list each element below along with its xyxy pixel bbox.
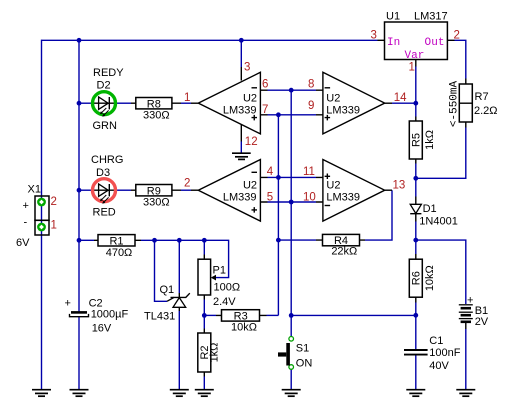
junction node pin4 rail A: [276, 175, 281, 180]
junction node D1/R6/B1: [413, 238, 418, 243]
svg-text:3: 3: [244, 62, 250, 74]
pin number 2 (U2c output): [184, 177, 190, 189]
svg-text:U2: U2: [243, 179, 257, 191]
resistor R6: [409, 254, 422, 303]
svg-text:R7: R7: [475, 91, 489, 103]
junction node on top rail at LED rail: [77, 38, 82, 43]
pin number 1 (LM317 Var): [409, 62, 415, 74]
value label 2.2 ohm (R7): [474, 105, 498, 117]
ground (C2): [70, 390, 89, 397]
svg-text:2: 2: [51, 196, 57, 208]
svg-text:Q1: Q1: [160, 284, 175, 296]
svg-text:+: +: [467, 295, 473, 307]
junction node pin5 rail B: [289, 200, 294, 205]
svg-text:TL431: TL431: [144, 311, 175, 323]
label LM317: [414, 11, 448, 23]
label Q1: [160, 284, 175, 296]
wire: rail to D2 anode: [79, 102, 92, 104]
resistor R1: [94, 235, 141, 248]
value label 100 ohm (P1): [214, 281, 241, 293]
svg-text:16V: 16V: [92, 323, 112, 335]
label D2: [97, 80, 111, 92]
pin number X1 pin2: [51, 196, 57, 208]
wire: R7 bottom to node at D1: [416, 128, 466, 179]
svg-text:100nF: 100nF: [429, 347, 460, 359]
pin number 6: [262, 78, 268, 90]
svg-text:Var: Var: [405, 50, 425, 62]
switch S1 (pushbutton): [278, 337, 294, 370]
svg-text:2.4V: 2.4V: [213, 296, 236, 308]
wire: node to R3 left: [204, 314, 216, 316]
ground (S1): [282, 390, 301, 397]
value label 40V: [429, 360, 449, 372]
svg-text:LM339: LM339: [326, 191, 360, 203]
label C1: [429, 335, 443, 347]
op-amp U2a (LM339, output pin 1, points left): [191, 67, 268, 142]
wire: D3 cathode to R9: [117, 189, 132, 191]
svg-text:D2: D2: [97, 80, 111, 92]
svg-text:10: 10: [303, 191, 316, 203]
wire: node to R5 top: [415, 103, 417, 116]
svg-text:LM339: LM339: [223, 105, 257, 117]
wire: U2a pin3 power drop: [240, 40, 242, 67]
svg-text:470Ω: 470Ω: [106, 247, 133, 259]
junction node on top rail at pin3 drop: [239, 38, 244, 43]
svg-text:6V: 6V: [16, 237, 30, 249]
wire: D1 cathode to node: [415, 222, 417, 241]
svg-text:D1: D1: [423, 203, 437, 215]
op-amp U2c (LM339, output pin 2, points left): [191, 160, 268, 222]
svg-text:R1: R1: [109, 235, 123, 247]
wire: D2 cathode to R8: [117, 102, 132, 104]
label X1: [28, 184, 41, 196]
ground (R2): [195, 390, 214, 397]
wire: R2 bottom to ground: [203, 377, 205, 390]
label P1: [213, 265, 226, 277]
svg-text:1: 1: [51, 220, 57, 232]
svg-text:1kΩ: 1kΩ: [424, 130, 436, 150]
pin number 13: [393, 179, 406, 191]
wire: pin4-pin11 row: [268, 176, 317, 178]
svg-text:13: 13: [393, 179, 406, 191]
svg-text:330Ω: 330Ω: [143, 109, 170, 121]
wire: U2a pin12 to ground: [240, 142, 242, 154]
label GRN: [93, 120, 118, 132]
value label 1k ohm (R2): [209, 343, 221, 363]
svg-text:X1: X1: [28, 184, 41, 196]
wire: node to D1 anode: [415, 178, 417, 196]
op-amp U2d (LM339, output pin 13, points right): [316, 160, 392, 222]
wire: R8 to U2a output (node 1): [181, 102, 191, 104]
svg-text:U2: U2: [243, 92, 257, 104]
label C2: [89, 297, 103, 309]
pin number 12 (U2a V-): [245, 136, 258, 148]
label B1: [475, 305, 488, 317]
value label 470 ohm (R1): [106, 247, 133, 259]
connector X1: [35, 196, 49, 235]
svg-text:2: 2: [184, 177, 190, 189]
wire: X1 pin1 to ground: [41, 235, 43, 390]
svg-text:U2: U2: [326, 179, 340, 191]
LED D3 (red): [92, 179, 117, 204]
junction node R1 left: [77, 238, 82, 243]
svg-text:LM317: LM317: [414, 11, 448, 23]
wire: X1 pin2 feed down from top rail: [41, 40, 43, 196]
diode D1: [410, 197, 421, 222]
value label 10k ohm (R6): [424, 265, 436, 291]
ground (X1): [32, 390, 51, 397]
resistor R9: [131, 185, 181, 198]
battery B1: [459, 305, 473, 329]
pin number 4: [267, 166, 274, 178]
svg-text:100Ω: 100Ω: [214, 281, 241, 293]
label ON: [296, 358, 313, 370]
label R7: [475, 91, 489, 103]
svg-text:<-550mA: <-550mA: [449, 81, 461, 128]
svg-text:In: In: [387, 37, 400, 49]
potentiometer P1: [198, 255, 216, 300]
pin number 2 (LM317 Out): [454, 30, 460, 42]
wire: vertical rail B (pin6 net): [290, 90, 292, 336]
svg-text:1N4001: 1N4001: [419, 216, 458, 228]
svg-text:C1: C1: [429, 335, 443, 347]
resistor R8: [131, 98, 181, 111]
svg-text:+: +: [23, 200, 29, 212]
svg-text:330Ω: 330Ω: [143, 196, 170, 208]
svg-text:12: 12: [245, 136, 258, 148]
svg-text:8: 8: [308, 78, 314, 90]
svg-text:5: 5: [267, 191, 273, 203]
svg-text:2V: 2V: [475, 316, 489, 328]
junction node R6/C1/sense: [413, 313, 418, 318]
current label <-550mA: [449, 81, 461, 128]
wire: rail to D3 anode: [79, 189, 92, 191]
junction node pin14/R5: [413, 101, 418, 106]
wire: pin5-pin10 row: [268, 201, 317, 203]
wire: TL431 anode to ground: [178, 311, 180, 390]
svg-text:U2: U2: [326, 92, 340, 104]
pin number 3 (LM317 In): [371, 30, 377, 42]
svg-text:1000µF: 1000µF: [91, 308, 129, 320]
value label 22k ohm (R4): [331, 245, 357, 257]
junction node TL431 cathode: [177, 238, 182, 243]
junction node pin6 rail B: [289, 88, 294, 93]
junction node R2/R3: [202, 313, 207, 318]
shunt regulator Q1 TL431: [167, 293, 190, 311]
wire: left LED rail: [78, 40, 80, 312]
svg-text:D3: D3: [96, 167, 110, 179]
svg-text:CHRG: CHRG: [91, 154, 123, 166]
svg-text:P1: P1: [213, 265, 226, 277]
pin number 8: [308, 78, 314, 90]
junction node P1 top: [202, 238, 207, 243]
svg-text:R6: R6: [410, 271, 422, 285]
svg-text:-: -: [24, 217, 28, 229]
wire: node to R2 top: [203, 315, 205, 328]
regulator U1 LM317: [378, 22, 455, 67]
svg-text:REDY: REDY: [93, 67, 124, 79]
wire: C2 negative to ground: [78, 317, 80, 390]
svg-text:2.2Ω: 2.2Ω: [474, 105, 498, 117]
wire: rail A node to R4 left: [278, 239, 316, 241]
value label 2V: [475, 316, 489, 328]
value label 1k ohm (R5): [424, 130, 436, 150]
label REDY: [93, 67, 124, 79]
wire: node to TL431 ref: [155, 240, 168, 301]
pin number X1 pin1: [51, 220, 57, 232]
value label 330 ohm (R9): [143, 196, 170, 208]
svg-text:RED: RED: [93, 207, 116, 219]
pin number 9: [308, 100, 314, 112]
svg-text:7: 7: [262, 104, 268, 116]
svg-text:LM339: LM339: [223, 191, 257, 203]
pin number 11: [303, 166, 315, 178]
wire: pin7-pin9 row: [268, 114, 317, 116]
svg-text:14: 14: [394, 92, 407, 104]
value label 100nF: [429, 347, 460, 359]
capacitor C1: [404, 350, 428, 355]
wire: top supply rail: [42, 39, 378, 41]
svg-text:U1: U1: [386, 11, 400, 23]
label D1: [423, 203, 437, 215]
svg-text:ON: ON: [296, 358, 313, 370]
wire: node to B1 positive: [416, 240, 466, 304]
wire: node to P1 top: [203, 240, 205, 254]
wire: B1 negative to ground: [465, 329, 467, 390]
ground (B1): [456, 390, 475, 397]
label B1 plus: [467, 295, 473, 307]
wire: R4 right to U2d output pin13: [365, 190, 392, 240]
junction node rail A at R4 row: [276, 238, 281, 243]
svg-text:2: 2: [454, 30, 460, 42]
label S1: [296, 343, 309, 355]
wire: R5 bottom to node: [415, 164, 417, 179]
label C2 plus: [65, 298, 71, 310]
wire: LM317 Var drop: [415, 67, 417, 105]
wire: R6 bottom to node: [415, 303, 417, 316]
value label 16V: [92, 323, 112, 335]
label X1 minus: [24, 217, 28, 229]
ground (C1): [406, 390, 425, 397]
label D3: [96, 167, 110, 179]
wire: R1 right to P1 wiper feed: [141, 240, 229, 277]
pin number 14: [394, 92, 407, 104]
junction node TL431 ref: [152, 238, 157, 243]
value label 330 ohm (R8): [143, 109, 170, 121]
wire: vertical rail A (pin7 net): [277, 115, 279, 316]
wire: rail to R1 left: [79, 239, 94, 241]
op-amp U2b (LM339, output pin 14, points right): [316, 72, 392, 134]
value label 2.4V: [213, 296, 236, 308]
svg-text:S1: S1: [296, 343, 309, 355]
value label 6V: [16, 237, 30, 249]
resistor R4: [316, 234, 365, 247]
ground under U2a pin 12: [232, 153, 251, 159]
wire: LM317 out to R7 top: [455, 40, 466, 78]
label RED: [93, 207, 116, 219]
junction node pin7 rail A: [276, 112, 281, 117]
ground (TL431): [170, 390, 189, 397]
wire: S1 bottom to ground: [290, 370, 292, 390]
LED D2 (green): [92, 92, 117, 117]
svg-text:22kΩ: 22kΩ: [331, 245, 357, 257]
pin number 3 (U2a V+): [244, 62, 250, 74]
svg-text:10kΩ: 10kΩ: [424, 265, 436, 291]
pin number 7: [262, 104, 268, 116]
wire: R3 right to rail A: [267, 314, 279, 316]
wire: node to C1 top: [415, 315, 417, 349]
resistor R3: [216, 310, 267, 323]
resistor R2: [198, 329, 211, 377]
wire: pin6-pin8 row: [268, 89, 317, 91]
svg-text:+: +: [65, 298, 71, 310]
svg-text:11: 11: [303, 166, 315, 178]
svg-text:9: 9: [308, 100, 314, 112]
capacitor C2 (electrolytic): [70, 312, 89, 316]
value label 10k ohm (R3): [231, 321, 257, 333]
svg-text:4: 4: [267, 166, 274, 178]
wire: node to TL431 cathode: [178, 240, 180, 293]
label U1: [386, 11, 400, 23]
svg-text:10kΩ: 10kΩ: [231, 321, 257, 333]
svg-text:R5: R5: [410, 133, 422, 147]
wire: sense rail from S1 node to R6/C1 node: [291, 314, 416, 316]
pin number 5: [267, 191, 273, 203]
junction node sense rail at rail B: [289, 313, 294, 318]
svg-text:6: 6: [262, 78, 268, 90]
wire: node to R6 top: [415, 240, 417, 254]
wire: R9 to U2c output (node 2): [181, 189, 191, 191]
svg-text:Out: Out: [425, 37, 445, 49]
svg-text:GRN: GRN: [93, 120, 118, 132]
svg-text:LM339: LM339: [326, 105, 360, 117]
pin number 10: [303, 191, 316, 203]
junction node D2 anode: [77, 101, 82, 106]
svg-text:1kΩ: 1kΩ: [209, 343, 221, 363]
wire: U2b output pin14 to node: [392, 102, 416, 104]
label X1 plus: [23, 200, 29, 212]
svg-text:3: 3: [371, 30, 377, 42]
resistor R5: [409, 117, 422, 164]
label TL431: [144, 311, 175, 323]
svg-text:1: 1: [184, 92, 190, 104]
value label 1000uF: [91, 308, 129, 320]
junction node D3 anode: [77, 188, 82, 193]
label CHRG: [91, 154, 123, 166]
value label 1N4001: [419, 216, 458, 228]
svg-text:1: 1: [409, 62, 415, 74]
svg-text:40V: 40V: [429, 360, 449, 372]
wire: C1 bottom to ground: [415, 355, 417, 390]
wire: P1 bottom to node: [203, 300, 205, 316]
resistor R7: [459, 79, 472, 128]
junction node R5/D1/R7: [413, 176, 418, 181]
pin number 1 (U2a output): [184, 92, 190, 104]
